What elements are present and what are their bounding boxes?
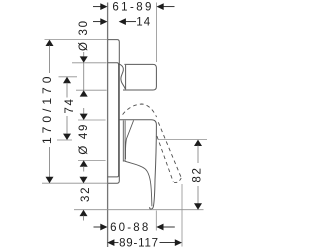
svg-text:Ø 30: Ø 30	[78, 19, 90, 51]
extension line: handle front vertical bottom (x=156.3)	[155, 211, 157, 231]
extension line: collar top	[78, 119, 106, 121]
knob neck (spool)	[119, 64, 125, 89]
dashed arc (lever swing dome)	[123, 104, 157, 117]
svg-text:61-89: 61-89	[112, 2, 153, 14]
dimension 14 (top)	[93, 18, 136, 25]
extension line: raised lever tip vertical (x=182)	[181, 184, 183, 247]
extension line: pivot center right (y=139.6)	[158, 139, 207, 141]
handle collar front line	[124, 120, 126, 161]
lever handle outline (solid, lowered)	[119, 120, 157, 209]
extension line: knob face vertical (x=156.5)	[156, 3, 158, 63]
dimension 60-88 (bottom)	[94, 224, 175, 231]
handle collar back line	[123, 120, 125, 161]
extension line: knob top	[72, 62, 107, 64]
sleeve front face (inner layer)	[108, 63, 119, 177]
svg-text:89-117: 89-117	[119, 238, 159, 250]
extension line: plate bottom (y=183.2)	[42, 182, 108, 184]
svg-text:74: 74	[64, 97, 76, 113]
dimension diameter 49 (collar)	[80, 108, 88, 172]
extension line: collar centerline	[57, 139, 72, 141]
dimension 32 (plate bottom to handle bottom)	[80, 177, 88, 221]
dimension 89-117 (bottom)	[107, 239, 182, 246]
lever inner edge curve	[126, 120, 134, 159]
extension line: knob bottom	[76, 89, 107, 91]
extension line: collar bottom	[78, 159, 106, 161]
extension line: knob centerline	[59, 76, 78, 78]
dimension diameter 30 (knob)	[80, 52, 88, 97]
escutcheon plate (tall box, side view)	[108, 40, 120, 184]
svg-text:Ø 49: Ø 49	[78, 123, 90, 155]
svg-text:32: 32	[80, 186, 92, 202]
dimension 74 (knob center to pivot center)	[63, 77, 71, 140]
dimension 82 (right)	[194, 140, 202, 210]
knob U1 (top control, side view)	[123, 64, 156, 90]
svg-text:170/170: 170/170	[40, 73, 54, 144]
dashed raised-lever back edge	[157, 136, 173, 182]
extension line: plate top (y=39.6)	[45, 39, 108, 41]
svg-text:14: 14	[136, 17, 151, 29]
wall line	[107, 3, 109, 248]
dimension 61-89 (top)	[93, 3, 175, 10]
dashed raised-lever tip	[173, 178, 181, 183]
extension line: handle bottom (y=209.7)	[74, 209, 204, 211]
dashed raised-lever front edge	[158, 122, 181, 178]
svg-text:60-88: 60-88	[110, 222, 150, 234]
dimension 170/170 (left)	[46, 40, 54, 184]
svg-text:82: 82	[191, 166, 203, 182]
lever underside curve	[125, 161, 152, 206]
